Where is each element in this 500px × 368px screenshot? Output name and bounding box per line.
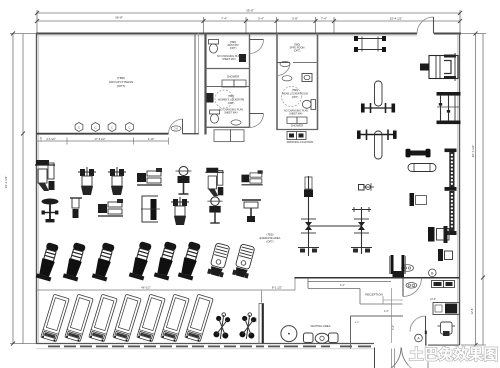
small dark bar right bbox=[410, 193, 415, 206]
right wall bbox=[459, 33, 461, 345]
elliptical 2 bbox=[239, 312, 258, 340]
men locker block right wall bbox=[317, 33, 319, 130]
svg-text:7'-4": 7'-4" bbox=[321, 17, 327, 21]
office chair bbox=[438, 322, 456, 336]
tag oval near right wall bbox=[402, 265, 414, 272]
office desk with computer bbox=[433, 303, 460, 315]
left wall bbox=[36, 33, 38, 344]
svg-text:土巴兔效果图: 土巴兔效果图 bbox=[409, 346, 498, 364]
top dimension line 1 bbox=[37, 12, 460, 14]
svg-text:7'-4": 7'-4" bbox=[221, 17, 227, 21]
svg-text:35'-8": 35'-8" bbox=[246, 9, 254, 13]
women top door leaf bbox=[250, 39, 264, 41]
men turning circle bbox=[282, 87, 302, 107]
svg-text:15'-4 1/2": 15'-4 1/2" bbox=[390, 17, 403, 21]
small dim texts bottom right bbox=[340, 284, 436, 330]
svg-text:12'-6": 12'-6" bbox=[470, 308, 474, 315]
bottom wall right of entry bbox=[428, 344, 460, 346]
machine lower right bbox=[428, 226, 449, 243]
svg-text:10'-6": 10'-6" bbox=[430, 298, 436, 301]
women locker room text bbox=[218, 95, 244, 115]
machine B5 bbox=[171, 197, 189, 225]
svg-text:4'-0": 4'-0" bbox=[355, 322, 360, 324]
machine B6 bbox=[207, 197, 222, 223]
machine A5 bbox=[176, 167, 192, 195]
drinking fountain units bbox=[287, 132, 297, 140]
sink women top bbox=[239, 54, 246, 62]
treadmill 1 bbox=[41, 294, 69, 342]
svg-text:(OPT): (OPT) bbox=[292, 96, 299, 99]
men toilet bbox=[311, 100, 316, 110]
svg-text:(OPT): (OPT) bbox=[230, 47, 237, 50]
women shower stalls bbox=[222, 80, 234, 87]
left cable tower bbox=[298, 176, 319, 256]
treadmill 2 bbox=[65, 294, 93, 342]
group fitness right wall bbox=[194, 33, 196, 135]
men partial wall bbox=[293, 62, 318, 64]
men door arc bbox=[277, 63, 290, 76]
svg-text:40'-1 1/2": 40'-1 1/2" bbox=[471, 145, 475, 158]
door size tag oval bbox=[171, 126, 181, 131]
women locker block right wall bbox=[249, 33, 251, 128]
women bottom door leaf bbox=[250, 113, 264, 115]
entry door arc left bbox=[375, 348, 402, 368]
top wall bbox=[36, 33, 417, 35]
men door leaf bbox=[277, 62, 290, 64]
circled A door tag bbox=[415, 334, 423, 342]
bottom storefront wall line bbox=[36, 343, 374, 345]
squat rack dark bbox=[390, 255, 406, 277]
svg-text:(OPT): (OPT) bbox=[228, 102, 235, 105]
bike 5 bbox=[154, 241, 179, 281]
svg-text:4'-6 1/2": 4'-6 1/2" bbox=[46, 137, 56, 141]
dim slash ticks top bbox=[35, 11, 462, 23]
women top door arc bbox=[250, 40, 264, 54]
bike 6 bbox=[178, 241, 203, 281]
svg-text:RECEPTION: RECEPTION bbox=[365, 292, 383, 296]
women sink lower bbox=[207, 93, 214, 103]
chair 2 bbox=[329, 333, 339, 343]
bench press station 2 barbell bbox=[357, 130, 397, 160]
top wall door arc bbox=[417, 17, 434, 34]
svg-text:WAITING AREA: WAITING AREA bbox=[310, 324, 330, 328]
office door A leaf bbox=[425, 316, 427, 332]
group fitness bottom wall bbox=[36, 133, 169, 135]
women restroom text bbox=[217, 41, 241, 61]
bike 1 bbox=[36, 242, 61, 282]
dim line above treadmills bbox=[36, 289, 295, 291]
machine A1 bbox=[35, 160, 55, 191]
bench press station 1 bench bbox=[361, 81, 395, 113]
office inner wall bbox=[425, 332, 427, 347]
men top room text bbox=[290, 44, 305, 53]
svg-text:3'-10": 3'-10" bbox=[148, 137, 155, 141]
svg-text:(OPT): (OPT) bbox=[117, 84, 125, 88]
women bottom door arc bbox=[250, 114, 264, 128]
treadmill 4 bbox=[113, 294, 141, 342]
women restroom bottom wall bbox=[206, 68, 250, 70]
bike 4 bbox=[129, 241, 154, 281]
entry door arc right bbox=[402, 348, 429, 368]
bike 7 outline bbox=[207, 242, 231, 277]
machine B4 C-shape with dark bar bbox=[141, 196, 160, 222]
svg-text:6'-2": 6'-2" bbox=[340, 284, 345, 287]
entry door leaf left bbox=[374, 348, 376, 368]
machine A4 bbox=[137, 168, 162, 185]
svg-text:SHEET MAY: SHEET MAY bbox=[289, 113, 303, 116]
oval table bbox=[315, 333, 329, 343]
toilet women top bbox=[209, 40, 219, 45]
reception counter bbox=[308, 282, 403, 305]
treadmill 6 bbox=[161, 294, 189, 342]
svg-text:46'-1/2": 46'-1/2" bbox=[141, 285, 150, 289]
svg-text:SHOWER: SHOWER bbox=[291, 124, 304, 128]
office wall y=316 bbox=[351, 315, 404, 317]
men sink bbox=[302, 74, 312, 82]
svg-text:3'-8": 3'-8" bbox=[292, 17, 298, 21]
divider extension line bbox=[261, 290, 263, 304]
women lockers bench below block bbox=[214, 130, 231, 142]
women block bottom wall bbox=[206, 126, 250, 128]
flat bench rack top bbox=[354, 36, 386, 52]
waiting/vestibule wall x=350 bbox=[350, 316, 352, 349]
reception north wall bbox=[295, 277, 460, 279]
men shower stalls bbox=[287, 117, 297, 124]
dim line under fitness wall bbox=[36, 140, 169, 142]
women door tag bbox=[231, 120, 241, 125]
svg-text:EXERCISE AREA: EXERCISE AREA bbox=[260, 236, 281, 240]
svg-text:3'-0": 3'-0" bbox=[255, 317, 258, 322]
svg-text:(TBD): (TBD) bbox=[267, 233, 274, 237]
treadmill 5 bbox=[137, 294, 165, 342]
svg-text:SHEET MAY: SHEET MAY bbox=[224, 112, 238, 115]
elliptical 1 bbox=[213, 312, 232, 340]
svg-text:5'-4": 5'-4" bbox=[258, 17, 264, 21]
svg-text:(OPT): (OPT) bbox=[294, 50, 301, 53]
fitness door leaf + arc bbox=[182, 119, 184, 134]
counter back line bbox=[308, 281, 391, 283]
bike 3 bbox=[92, 242, 117, 282]
svg-text:3'-0": 3'-0" bbox=[392, 325, 395, 330]
chair 1 bbox=[304, 333, 314, 343]
top dim labels bbox=[115, 9, 402, 21]
machine A3 bbox=[108, 167, 126, 195]
machine A2 bbox=[78, 167, 96, 195]
dim marks near office bbox=[383, 288, 403, 343]
column hexagons bbox=[75, 123, 133, 132]
women toilet lower bbox=[210, 110, 220, 114]
svg-text:8'-1 1/2": 8'-1 1/2" bbox=[272, 285, 282, 289]
svg-text:36'-8": 36'-8" bbox=[115, 16, 123, 20]
svg-text:36'-1 1/2": 36'-1 1/2" bbox=[4, 176, 8, 189]
svg-text:DRINKING FOUNTAIN: DRINKING FOUNTAIN bbox=[287, 140, 314, 144]
treadmill 7 bbox=[185, 294, 213, 342]
svg-text:17'-6 1/2": 17'-6 1/2" bbox=[95, 137, 106, 141]
machine top right corner bbox=[420, 53, 458, 81]
women locker room turning circle bbox=[215, 90, 233, 108]
reception door tag oval bbox=[406, 283, 417, 289]
waiting divider wall bbox=[259, 304, 264, 344]
treadmill 3 bbox=[89, 294, 117, 342]
men block bottom wall bbox=[277, 129, 318, 131]
svg-text:(OPT): (OPT) bbox=[266, 240, 273, 244]
plate rack ladder along right wall bbox=[445, 149, 457, 236]
machine A6 bbox=[205, 168, 223, 197]
women shower bottom wall bbox=[206, 86, 250, 88]
svg-text:SHEET MAY: SHEET MAY bbox=[222, 58, 236, 61]
small machine lowest right bbox=[438, 249, 453, 261]
vestibule mullion bbox=[391, 349, 393, 368]
circled B door tag bbox=[429, 269, 437, 277]
right cable tower bbox=[351, 207, 372, 254]
top dimension line 2 bbox=[37, 20, 460, 22]
small machine near cables bbox=[359, 183, 375, 191]
top dim extension ticks bbox=[37, 10, 460, 33]
group fitness text bbox=[109, 76, 133, 88]
dumbbell rack right bbox=[437, 92, 461, 124]
dumbbell pill bbox=[406, 149, 431, 158]
men locker block left wall bbox=[276, 33, 278, 130]
machine A7 bbox=[241, 170, 262, 184]
right dimension lines bbox=[475, 34, 477, 346]
storefront mullion segments bbox=[48, 345, 371, 347]
left dimension lines bbox=[12, 34, 14, 345]
bike 8 outline bbox=[232, 243, 256, 278]
women locker block left wall bbox=[204, 33, 206, 135]
men door tag ovals bbox=[280, 61, 290, 66]
machine B7 bbox=[242, 200, 261, 222]
office door A arc bbox=[410, 316, 426, 332]
round table bbox=[281, 326, 297, 342]
office cabinets bbox=[432, 281, 455, 288]
machine B1 pec deck bbox=[42, 199, 59, 223]
svg-text:SHOWER: SHOWER bbox=[227, 75, 240, 79]
entry door leaf right bbox=[427, 348, 429, 368]
reception door leaf bbox=[402, 278, 404, 297]
svg-text:4'-6": 4'-6" bbox=[384, 310, 389, 313]
bench outline right bbox=[408, 164, 436, 172]
exercise area text bbox=[260, 233, 281, 244]
bike 2 bbox=[63, 242, 88, 282]
machine B3 bbox=[98, 199, 123, 216]
machine B2 bbox=[70, 198, 82, 218]
men locker room text bbox=[282, 89, 308, 116]
cable crossbar bbox=[309, 225, 362, 227]
reception door arc bbox=[403, 278, 422, 297]
